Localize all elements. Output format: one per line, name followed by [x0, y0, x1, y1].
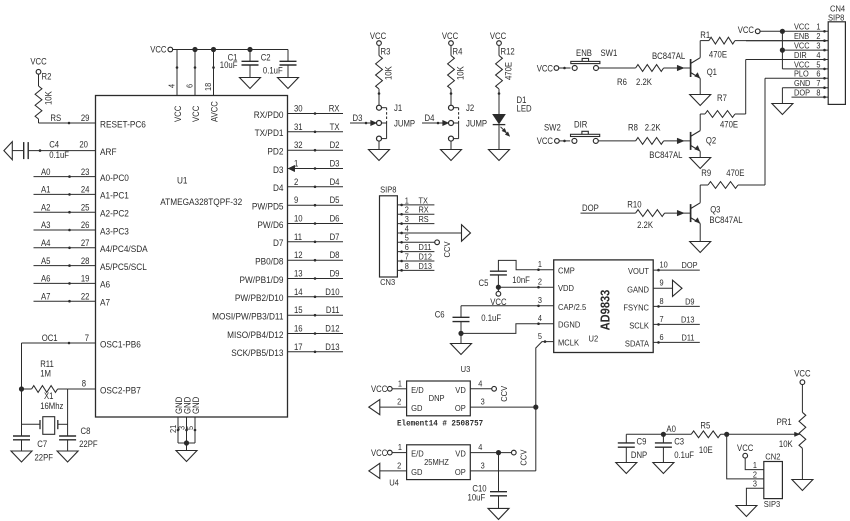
wire net A4 to U1 pin 27	[34, 238, 96, 249]
svg-text:5: 5	[185, 426, 195, 430]
svg-text:U3: U3	[461, 364, 471, 374]
wire CN4 pin 5 VCC	[782, 68, 828, 70]
svg-text:16Mhz: 16Mhz	[40, 401, 63, 411]
svg-text:3: 3	[538, 295, 542, 305]
ground under Q3	[690, 242, 711, 253]
svg-text:R10: R10	[627, 200, 641, 210]
wire net A7 to U1 pin 22	[34, 291, 96, 302]
svg-text:R7: R7	[717, 93, 727, 103]
svg-text:JUMP: JUMP	[466, 118, 487, 128]
svg-text:SIP8: SIP8	[380, 184, 397, 194]
svg-text:A0-PC0: A0-PC0	[100, 172, 129, 183]
wire net RS at CN3 pin 3	[397, 214, 434, 224]
wire net D10 stub at U1 pin 14	[288, 287, 344, 298]
wire net A6 to U1 pin 19	[34, 274, 96, 285]
svg-text:8: 8	[82, 379, 86, 389]
svg-text:D7: D7	[273, 237, 284, 248]
svg-text:VCC: VCC	[537, 63, 554, 73]
ground under C1	[240, 78, 261, 89]
svg-text:VCC: VCC	[490, 31, 507, 41]
svg-text:C7: C7	[37, 439, 47, 449]
svg-text:D11: D11	[682, 332, 695, 342]
svg-text:RX: RX	[329, 104, 340, 114]
resistor R8 2.2K	[598, 122, 691, 144]
svg-text:OP: OP	[455, 467, 466, 477]
wire Q1 emitter to ground	[699, 78, 701, 94]
wire CN4 pin 8 DOP	[792, 96, 829, 98]
svg-text:VCC: VCC	[150, 45, 167, 55]
wire OSC2-PB7 pin 8 column	[68, 379, 96, 436]
svg-text:RS: RS	[50, 113, 61, 123]
svg-text:SIP3: SIP3	[764, 499, 781, 509]
svg-text:R12: R12	[501, 47, 515, 57]
svg-text:10uF: 10uF	[220, 60, 238, 70]
svg-text:SCK/PB5/D13: SCK/PB5/D13	[231, 347, 283, 358]
resistor R7 470E collector Q2 to DIR	[700, 60, 746, 131]
svg-text:31: 31	[294, 122, 303, 132]
svg-text:1: 1	[398, 378, 402, 388]
capacitor C8 22PF	[59, 426, 98, 451]
wire net D3 stub at U1 pin 1	[288, 159, 344, 172]
jumper J2 with D4 input	[422, 89, 487, 150]
wire U3 VD pin 4 to VCC	[470, 378, 509, 401]
svg-text:2: 2	[294, 177, 298, 187]
ground under D1	[489, 150, 510, 161]
svg-text:R2: R2	[42, 72, 52, 82]
wire net D9 at U2 FSYNC pin 8	[653, 296, 700, 307]
svg-text:C6: C6	[435, 310, 445, 320]
svg-text:ATMEGA328TQPF-32: ATMEGA328TQPF-32	[160, 196, 242, 207]
svg-text:1M: 1M	[40, 369, 51, 379]
svg-text:DOP: DOP	[794, 88, 810, 98]
svg-text:R9: R9	[701, 168, 711, 178]
wire net TX at CN3 pin 1	[397, 195, 434, 205]
wire net A1 to U1 pin 24	[34, 185, 96, 196]
svg-text:D5: D5	[330, 195, 340, 205]
IC U1 ATMEGA328TQPF-32	[96, 96, 288, 418]
svg-text:A2-PC2: A2-PC2	[100, 208, 129, 219]
wire CN4 pin 7 GND	[782, 88, 828, 104]
svg-text:R11: R11	[40, 359, 54, 369]
svg-text:SW1: SW1	[601, 48, 618, 58]
capacitor C6 0.1uF	[435, 310, 502, 344]
wire U3 OP pin 3 to MCLK	[470, 397, 536, 407]
svg-text:CCV: CCV	[519, 449, 529, 465]
transistor Q2 BC847AL	[649, 131, 716, 160]
svg-text:VCC: VCC	[442, 31, 459, 41]
svg-text:AD9833: AD9833	[599, 290, 613, 331]
wire net A2 to U1 pin 25	[34, 202, 96, 213]
svg-text:SDATA: SDATA	[625, 338, 649, 348]
capacitor C5 10nF	[479, 271, 531, 288]
wire net DOP at U2 VOUT pin 10	[653, 260, 700, 271]
wire VCC to CN4 pin 1	[738, 25, 829, 35]
text Element14 part number	[397, 419, 483, 429]
wire net D12 stub at U1 pin 16	[288, 324, 344, 335]
capacitor C9 DNP	[618, 434, 648, 462]
svg-text:TX: TX	[330, 122, 340, 132]
svg-text:VCC: VCC	[30, 57, 47, 67]
wire net D12 at CN3 pin 7	[397, 251, 434, 261]
svg-text:C8: C8	[81, 426, 91, 436]
resistor R10 2.2K on DOP	[581, 200, 691, 231]
wire net D7 stub at U1 pin 11	[288, 232, 344, 243]
VCC terminal at SW2	[537, 136, 571, 146]
svg-text:10nF: 10nF	[512, 275, 530, 285]
wire CN2 pin 3 to ground	[746, 488, 763, 505]
svg-text:16: 16	[294, 324, 303, 334]
svg-text:8: 8	[660, 296, 664, 306]
svg-text:A5/PC5/SCL: A5/PC5/SCL	[100, 261, 147, 272]
svg-text:R3: R3	[381, 47, 391, 57]
wire net D2 stub at U1 pin 32	[288, 140, 344, 151]
resistor R3 10K	[370, 31, 394, 89]
svg-text:VD: VD	[455, 449, 466, 459]
svg-text:A3: A3	[41, 220, 51, 230]
resistor R9 470E collector Q3 to PLO	[700, 78, 765, 203]
svg-text:SIP8: SIP8	[828, 12, 845, 22]
svg-text:32: 32	[294, 140, 303, 150]
svg-text:10K: 10K	[456, 66, 466, 80]
svg-text:A1: A1	[41, 185, 51, 195]
svg-text:DNP: DNP	[429, 393, 445, 403]
svg-text:4: 4	[478, 378, 482, 388]
svg-text:D13: D13	[681, 314, 695, 324]
crystal X1 16Mhz	[22, 391, 68, 434]
svg-text:10: 10	[294, 214, 303, 224]
svg-text:VCC: VCC	[737, 443, 754, 453]
svg-text:MCLK: MCLK	[558, 338, 579, 348]
svg-text:2.2K: 2.2K	[636, 77, 652, 87]
svg-text:RS: RS	[419, 214, 430, 224]
svg-text:5: 5	[538, 331, 542, 341]
svg-text:23: 23	[81, 167, 90, 177]
svg-text:SW2: SW2	[544, 122, 561, 132]
ground under U1	[176, 451, 197, 462]
svg-text:3: 3	[481, 461, 485, 471]
capacitor C2 0.1uF	[261, 50, 297, 78]
svg-text:470E: 470E	[504, 62, 514, 80]
svg-text:22PF: 22PF	[79, 439, 98, 449]
svg-text:10E: 10E	[699, 445, 713, 455]
svg-text:R8: R8	[628, 122, 638, 132]
svg-text:CCV: CCV	[442, 241, 452, 257]
svg-text:J1: J1	[394, 103, 402, 113]
svg-text:TX/PD1: TX/PD1	[255, 127, 284, 138]
wire CN3 pin 4 with output arrow	[397, 225, 470, 242]
svg-text:SCLK: SCLK	[629, 320, 649, 330]
svg-text:VCC: VCC	[537, 136, 554, 146]
svg-text:Q3: Q3	[710, 205, 720, 215]
svg-text:VD: VD	[455, 385, 466, 395]
capacitor C7 22PF	[13, 436, 54, 463]
svg-text:470E: 470E	[726, 168, 744, 178]
ground under C10	[488, 508, 509, 519]
svg-text:A4/PC4/SDA: A4/PC4/SDA	[100, 243, 148, 254]
svg-text:D8: D8	[330, 250, 340, 260]
svg-text:U2: U2	[589, 333, 599, 343]
svg-text:9: 9	[294, 195, 298, 205]
svg-text:OSC2-PB7: OSC2-PB7	[100, 384, 141, 395]
wire U2 CAP/2.5 pin 3 to C6	[461, 305, 554, 318]
svg-text:10K: 10K	[384, 66, 394, 80]
wire A0 tap to CN2 pin 2	[727, 434, 764, 479]
svg-text:470E: 470E	[709, 50, 727, 60]
svg-text:VOUT: VOUT	[628, 266, 650, 276]
svg-text:BC847AL: BC847AL	[649, 150, 682, 160]
wire net D5 stub at U1 pin 9	[288, 195, 344, 206]
ground under CN4 pin 7	[772, 104, 793, 115]
svg-text:BC847AL: BC847AL	[652, 51, 685, 61]
IC U4 oscillator module 25MHZ	[389, 445, 470, 488]
svg-text:E/D: E/D	[411, 449, 424, 459]
svg-text:A2: A2	[41, 202, 51, 212]
svg-text:U1: U1	[177, 175, 188, 186]
svg-text:CMP: CMP	[558, 266, 575, 276]
svg-text:ARF: ARF	[100, 146, 117, 157]
wire net D4 stub at U1 pin 2	[288, 177, 344, 188]
svg-text:R4: R4	[453, 47, 463, 57]
svg-text:25: 25	[81, 202, 90, 212]
svg-text:VCC: VCC	[371, 448, 388, 458]
wire net A3 to U1 pin 26	[34, 220, 96, 231]
wire net RX at CN3 pin 2	[397, 205, 434, 215]
svg-text:2.2K: 2.2K	[637, 220, 653, 230]
svg-text:OSC1-PB6: OSC1-PB6	[100, 338, 141, 349]
wire net A5 to U1 pin 28	[34, 256, 96, 267]
svg-text:JUMP: JUMP	[394, 118, 415, 128]
svg-text:6: 6	[185, 84, 195, 88]
svg-text:2: 2	[397, 397, 401, 407]
ground under C8	[57, 451, 78, 462]
LED D1	[493, 89, 532, 150]
wire CN4 pin 4 DIR	[746, 59, 829, 61]
svg-text:7: 7	[85, 333, 89, 343]
ground under C6	[451, 344, 472, 355]
transistor Q3 BC847AL	[691, 203, 743, 225]
svg-text:PW/PD5: PW/PD5	[252, 201, 284, 212]
svg-text:PW/PB2/D10: PW/PB2/D10	[235, 292, 284, 303]
svg-text:1: 1	[398, 442, 402, 452]
svg-text:8: 8	[405, 261, 409, 271]
wire net D13 stub at U1 pin 17	[288, 342, 344, 353]
svg-text:VCC: VCC	[173, 105, 183, 122]
svg-text:4: 4	[478, 442, 482, 452]
svg-text:C3: C3	[674, 437, 684, 447]
svg-text:0.1uF: 0.1uF	[674, 450, 694, 460]
resistor R6 2.2K	[598, 65, 690, 87]
svg-text:RX/PD0: RX/PD0	[254, 109, 284, 120]
svg-text:10uF: 10uF	[468, 492, 486, 502]
capacitor C3 0.1uF	[655, 434, 695, 462]
svg-text:17: 17	[294, 342, 303, 352]
svg-text:DGND: DGND	[558, 320, 580, 330]
svg-text:DIR: DIR	[574, 119, 587, 129]
ground under C7	[11, 451, 32, 462]
pushbutton SW1 ENB	[571, 48, 618, 71]
svg-text:GND: GND	[191, 397, 201, 414]
svg-text:C4: C4	[49, 139, 59, 149]
svg-text:3: 3	[753, 479, 757, 489]
connector CN2 SIP3	[753, 452, 782, 509]
svg-text:Element14 # 2508757: Element14 # 2508757	[397, 419, 483, 429]
VCC terminal at SW1	[537, 63, 571, 73]
ground under PR1	[792, 480, 813, 491]
resistor R2 10K pullup on RS/RESET	[30, 57, 95, 125]
svg-text:U4: U4	[389, 478, 399, 488]
wire U2 CMP pin 1 to C5	[498, 260, 553, 271]
svg-text:D4: D4	[330, 177, 340, 187]
svg-text:D6: D6	[330, 214, 340, 224]
ground under Q1	[690, 95, 711, 106]
svg-text:28: 28	[81, 256, 90, 266]
svg-text:27: 27	[81, 238, 90, 248]
svg-text:30: 30	[294, 104, 303, 114]
resistor R11 1M	[22, 359, 68, 392]
svg-text:PW/PB1/D9: PW/PB1/D9	[240, 274, 284, 285]
svg-text:CN3: CN3	[380, 277, 395, 287]
wire Q2 emitter to ground	[699, 151, 701, 157]
svg-text:Q2: Q2	[706, 136, 716, 146]
svg-text:10K: 10K	[44, 91, 54, 105]
svg-text:VCC: VCC	[191, 105, 201, 122]
svg-text:PW/D6: PW/D6	[257, 219, 283, 230]
svg-text:A7: A7	[100, 297, 110, 308]
svg-text:D10: D10	[325, 287, 339, 297]
resistor R1 470E collector Q1 to ENB	[700, 30, 828, 59]
wire U2 GAND pin 9 output arrow	[653, 280, 682, 296]
svg-text:1: 1	[538, 259, 542, 269]
svg-text:29: 29	[81, 113, 90, 123]
svg-text:PB0/D8: PB0/D8	[255, 256, 283, 267]
svg-text:2.2K: 2.2K	[645, 122, 661, 132]
svg-text:D3: D3	[273, 164, 284, 175]
svg-text:MOSI/PW/PB3/D11: MOSI/PW/PB3/D11	[212, 311, 283, 322]
IC U3 oscillator module DNP	[407, 364, 471, 416]
svg-text:4: 4	[538, 313, 542, 323]
svg-text:D9: D9	[685, 296, 695, 306]
connector CN3 SIP8	[380, 184, 410, 287]
wire VCC to CN2 pin 1	[737, 443, 764, 469]
svg-text:470E: 470E	[720, 120, 738, 130]
svg-text:OP: OP	[455, 403, 466, 413]
svg-text:RESET-PC6: RESET-PC6	[100, 118, 146, 129]
svg-text:GD: GD	[411, 467, 422, 477]
svg-text:CAP/2.5: CAP/2.5	[558, 302, 586, 312]
off-page arrow ARF	[4, 142, 24, 160]
resistor R5 10E	[691, 420, 800, 455]
svg-text:7: 7	[660, 314, 664, 324]
svg-text:D9: D9	[330, 269, 340, 279]
svg-text:D11: D11	[326, 305, 340, 315]
svg-text:A1-PC1: A1-PC1	[100, 190, 129, 201]
svg-text:D3: D3	[353, 113, 363, 123]
svg-text:FSYNC: FSYNC	[623, 302, 649, 312]
svg-text:DOP: DOP	[682, 260, 698, 270]
svg-text:GAND: GAND	[627, 284, 649, 294]
svg-text:A4: A4	[41, 238, 51, 248]
svg-text:BC847AL: BC847AL	[709, 215, 742, 225]
svg-text:A6: A6	[41, 274, 51, 284]
svg-text:10: 10	[660, 260, 668, 270]
svg-text:CCV: CCV	[499, 386, 509, 402]
wire U2 DGND pin 4	[458, 322, 553, 336]
svg-text:4: 4	[167, 84, 177, 88]
capacitor C4 0.1uF on ARF	[24, 139, 96, 160]
svg-text:D13: D13	[325, 342, 339, 352]
svg-text:A6: A6	[100, 279, 110, 290]
wire Q3 emitter to ground	[699, 223, 701, 241]
svg-text:D2: D2	[330, 140, 340, 150]
svg-text:18: 18	[203, 83, 213, 91]
wire VCC bus CN4 pins 1 3 5	[780, 31, 785, 69]
resistor R4 10K	[442, 31, 466, 89]
svg-text:0.1uF: 0.1uF	[263, 65, 283, 75]
svg-text:D4: D4	[273, 182, 284, 193]
wire CN4 pin 2 ENB	[746, 40, 828, 42]
wire CN4 pin 3 VCC	[782, 49, 828, 51]
wire VCC to U4 E/D pin 1	[371, 442, 407, 458]
ground under J2	[441, 150, 462, 161]
capacitor C1 10uF	[220, 50, 259, 78]
wire net D13 at CN3 pin 8	[397, 261, 434, 271]
wire net D11 stub at U1 pin 15	[288, 305, 344, 316]
svg-text:C9: C9	[637, 437, 647, 447]
svg-text:D7: D7	[330, 232, 340, 242]
svg-text:VCC: VCC	[794, 369, 811, 379]
svg-text:13: 13	[294, 269, 303, 279]
svg-text:22PF: 22PF	[35, 453, 54, 463]
svg-text:D4: D4	[425, 113, 435, 123]
svg-text:11: 11	[294, 232, 302, 242]
wire net D11 at U2 SDATA pin 6	[653, 332, 700, 343]
potentiometer PR1 10K	[777, 369, 812, 480]
svg-text:VCC: VCC	[370, 31, 387, 41]
svg-text:2: 2	[538, 277, 542, 287]
svg-text:0.1uF: 0.1uF	[481, 313, 501, 323]
svg-text:E/D: E/D	[411, 385, 424, 395]
svg-text:D12: D12	[325, 324, 339, 334]
wires U1 GND pins 21 3 5	[168, 417, 196, 451]
svg-text:26: 26	[81, 220, 90, 230]
svg-text:3: 3	[481, 397, 485, 407]
svg-text:LED: LED	[517, 104, 532, 114]
svg-text:OC1: OC1	[42, 333, 58, 343]
svg-text:VDD: VDD	[558, 283, 574, 293]
ground under J1	[369, 150, 390, 161]
ground under CN2 pin 3	[736, 506, 757, 517]
svg-text:9: 9	[660, 278, 664, 288]
wire net D8 stub at U1 pin 12	[288, 250, 344, 261]
svg-text:A7: A7	[41, 291, 51, 301]
wire net RX stub at U1 pin 30	[288, 104, 344, 115]
svg-text:D13: D13	[419, 261, 433, 271]
svg-text:Q1: Q1	[707, 67, 717, 77]
ground under C2	[278, 78, 299, 89]
wire CN3 pin 5 to VCC	[397, 240, 452, 258]
svg-text:DNP: DNP	[631, 450, 647, 460]
VCC rail to U1 power pins 4 6 18	[150, 45, 288, 96]
svg-text:8: 8	[816, 88, 820, 98]
wire CN4 pin 6 PLO	[765, 77, 828, 79]
wire U2 MCLK pin 5 to oscillator	[533, 340, 554, 471]
svg-text:VCC: VCC	[371, 384, 388, 394]
svg-text:15: 15	[294, 305, 303, 315]
resistor R12 470E	[490, 31, 515, 89]
ground under Q2	[690, 158, 711, 169]
capacitor C10 10uF	[468, 453, 508, 509]
wire net D13 at U2 SCLK pin 7	[653, 314, 700, 325]
